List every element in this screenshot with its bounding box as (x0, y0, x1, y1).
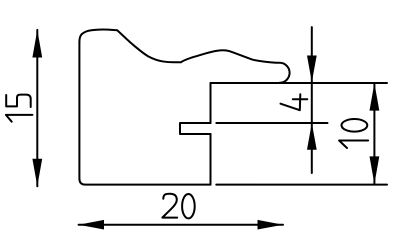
text 10 rotated: digit 0 (342, 119, 368, 132)
dim 4 line (continuous through) (311, 27, 313, 173)
text 20: digit 0 (182, 194, 195, 218)
rabbet back vertical (upper) (210, 83, 212, 123)
profile left edge and bottom (79, 42, 210, 185)
text 10 rotated: digit 1 (339, 141, 368, 149)
notch-top extension line for dim 4 (216, 122, 327, 124)
bottom extension line for dim 10 (216, 184, 387, 186)
profile top contour (79, 30, 289, 83)
text 15 rotated: digit 5 (6, 95, 31, 107)
rabbet ledge / top extension line (211, 82, 388, 84)
notch (180, 123, 211, 134)
text 15 rotated: digit 1 (6, 115, 33, 122)
arrowhead dim4 up (307, 123, 317, 150)
rabbet back vertical (lower) (210, 134, 212, 185)
text 4 rotated (281, 94, 308, 110)
arrowhead dim4 down (307, 56, 317, 83)
dim 20 line (79, 224, 283, 226)
arrowhead dim15 up (32, 30, 42, 58)
dim 10 line (373, 83, 375, 184)
arrowhead dim10 up (370, 83, 380, 111)
arrowhead dim10 down (370, 156, 380, 184)
text 20: digit 2 (162, 194, 177, 218)
arrowhead dim20 right (258, 220, 284, 230)
arrowhead dim20 left (79, 220, 104, 230)
arrowhead dim15 down (32, 159, 42, 187)
dim 15 line (36, 30, 38, 186)
